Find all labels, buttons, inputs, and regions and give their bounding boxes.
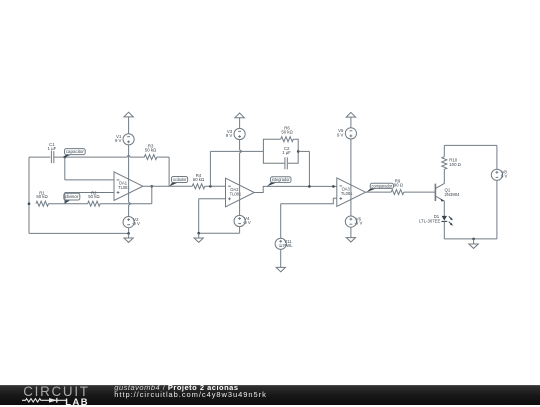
node junction comparator input bbox=[332, 185, 335, 188]
ground V11 bbox=[280, 249, 282, 267]
resistor R1 bbox=[36, 201, 49, 206]
svg-text:50 kΩ: 50 kΩ bbox=[36, 194, 48, 199]
wire D1 to bottom rail bbox=[443, 221, 445, 239]
svg-text:capacitor: capacitor bbox=[66, 149, 85, 154]
wire top rail bbox=[444, 144, 497, 146]
capacitor C2 bbox=[284, 157, 286, 169]
power arrow V3 bbox=[235, 113, 244, 118]
ground stage1 bbox=[128, 233, 130, 238]
logo resistor-diode glyph bbox=[22, 396, 68, 405]
node junction ground output bbox=[472, 238, 475, 241]
led D1 light arrows bbox=[449, 216, 452, 219]
svg-text:9 V: 9 V bbox=[337, 132, 344, 137]
svg-text:comparador: comparador bbox=[372, 183, 393, 188]
node junction loop right tap bbox=[297, 150, 300, 153]
source V11 PWL bbox=[275, 238, 286, 249]
wire inverting node to feedback loop bbox=[210, 150, 263, 152]
power arrow V5 bbox=[346, 112, 355, 117]
wire V1 to OA1 and V2 with hop bbox=[129, 145, 131, 217]
ground output stage bbox=[473, 239, 475, 244]
svg-text:9 V: 9 V bbox=[226, 133, 233, 138]
flag comparador bbox=[366, 188, 378, 192]
source V1 bbox=[123, 134, 134, 145]
flag capacitor bbox=[65, 154, 72, 157]
node junction left-rail/R1 bbox=[28, 202, 31, 205]
wire top to C1 bbox=[29, 156, 50, 158]
op-amp OA1 bbox=[114, 172, 143, 201]
wire inverting node up bbox=[209, 151, 211, 186]
wire C1 to node A with hop over V1 line bbox=[54, 155, 145, 157]
source V3 bbox=[234, 128, 245, 139]
wire R3 to output node bbox=[157, 156, 169, 158]
footer bar bbox=[0, 385, 540, 405]
resistor R10 bbox=[442, 157, 447, 170]
wire V3 to OA2 and V4 with hop bbox=[240, 140, 242, 216]
svg-text:50 kΩ: 50 kΩ bbox=[145, 147, 157, 152]
node junction ground stage2 bbox=[197, 232, 200, 235]
footer url text bbox=[114, 390, 266, 399]
svg-text:50 kΩ: 50 kΩ bbox=[281, 130, 293, 135]
footer title text bbox=[114, 383, 238, 392]
op-amp OA3 bbox=[337, 178, 366, 207]
flag divisor bbox=[65, 200, 72, 204]
transistor Q1 base bar bbox=[434, 184, 436, 201]
source V4 bbox=[234, 215, 245, 226]
resistor R2 bbox=[88, 201, 101, 206]
svg-text:90 Ω: 90 Ω bbox=[394, 183, 404, 188]
wire R9 to Q1 base bbox=[404, 191, 436, 193]
svg-text:LTL-307EE: LTL-307EE bbox=[419, 218, 441, 223]
svg-text:divisor: divisor bbox=[65, 194, 79, 199]
wire V2 to ground junction bbox=[128, 228, 130, 234]
wire OA2 output jog bbox=[254, 186, 336, 192]
power arrow V1 bbox=[124, 112, 133, 117]
led D1 bbox=[442, 216, 447, 221]
wire arrow to V5 bbox=[350, 117, 352, 128]
wire bottom rail bbox=[444, 238, 497, 240]
source V6 bbox=[345, 216, 356, 227]
wire R10 top bbox=[443, 145, 445, 156]
wire R4 to OA2 inverting input bbox=[205, 185, 226, 187]
logo CIRCUIT bbox=[23, 384, 90, 399]
wire node A down to OA1 inverting input bbox=[64, 157, 66, 180]
svg-text:-9 V: -9 V bbox=[132, 221, 140, 226]
ground stage2 bbox=[198, 233, 200, 238]
svg-text:1 µF: 1 µF bbox=[48, 146, 57, 151]
source V8 bbox=[491, 169, 502, 180]
logo LAB bbox=[65, 396, 89, 407]
resistor R4 bbox=[192, 184, 205, 189]
transistor Q1 emitter arrow bbox=[440, 198, 444, 201]
wire arrow to V1 bbox=[128, 117, 130, 134]
svg-text:9 V: 9 V bbox=[501, 174, 508, 179]
wire arrow to V3 bbox=[239, 118, 241, 129]
flag integrador bbox=[267, 182, 278, 187]
svg-text:-9 V: -9 V bbox=[354, 221, 362, 226]
flag ocilador bbox=[169, 182, 179, 186]
node junction loop-to-net bbox=[308, 185, 311, 188]
node junction R4/OA2 bbox=[209, 185, 212, 188]
resistor R9 bbox=[391, 190, 404, 195]
wire R2 to feedback corner bbox=[100, 203, 152, 205]
wire OA3 output bbox=[366, 191, 392, 193]
wire loop tap to output net bbox=[298, 150, 309, 152]
node junction ground stage1 bbox=[127, 232, 130, 235]
svg-text:50 kΩ: 50 kΩ bbox=[193, 177, 205, 182]
wire right rail upper bbox=[496, 145, 498, 169]
svg-text:50 kΩ: 50 kΩ bbox=[88, 194, 100, 199]
svg-text:9 V: 9 V bbox=[115, 138, 122, 143]
transistor Q1 collector bbox=[436, 169, 445, 188]
wire OA1 output bbox=[143, 185, 192, 187]
wire OA3 non-inverting to V11 bbox=[281, 198, 337, 203]
svg-text:integrador: integrador bbox=[272, 177, 290, 182]
svg-text:2N3904: 2N3904 bbox=[445, 192, 461, 197]
svg-text:ocilador: ocilador bbox=[173, 177, 187, 182]
resistor R6 bbox=[281, 137, 294, 142]
capacitor C1 bbox=[50, 151, 52, 163]
feedback loop frame bbox=[263, 139, 298, 163]
source V5 bbox=[345, 128, 356, 139]
source V2 bbox=[123, 217, 134, 228]
node A junction bbox=[64, 156, 67, 159]
wire V5 to OA3 and V6 bbox=[350, 139, 352, 216]
wire V4 to ground rail bbox=[239, 227, 241, 234]
svg-text:PWL: PWL bbox=[283, 243, 293, 248]
wire OA2 non-inverting to ground rail bbox=[199, 198, 226, 200]
wire divisor node up to OA1 non-inverting input bbox=[64, 193, 66, 204]
op-amp OA2 bbox=[226, 178, 255, 207]
wire left rail bbox=[28, 157, 30, 233]
wire R1 to divisor node bbox=[49, 203, 88, 205]
node junction OA1 output bbox=[151, 185, 154, 188]
wire right rail lower bbox=[496, 181, 498, 239]
svg-text:1 µF: 1 µF bbox=[282, 150, 291, 155]
svg-text:-9 V: -9 V bbox=[243, 220, 251, 225]
svg-text:100 Ω: 100 Ω bbox=[449, 162, 461, 167]
transistor Q1 emitter bbox=[436, 196, 445, 216]
ground V6 bbox=[350, 227, 352, 237]
resistor R3 bbox=[144, 155, 157, 160]
wire V11 top bbox=[280, 204, 282, 239]
wire feedback up to output bbox=[151, 186, 153, 203]
wire bottom-left rail bbox=[29, 232, 129, 234]
